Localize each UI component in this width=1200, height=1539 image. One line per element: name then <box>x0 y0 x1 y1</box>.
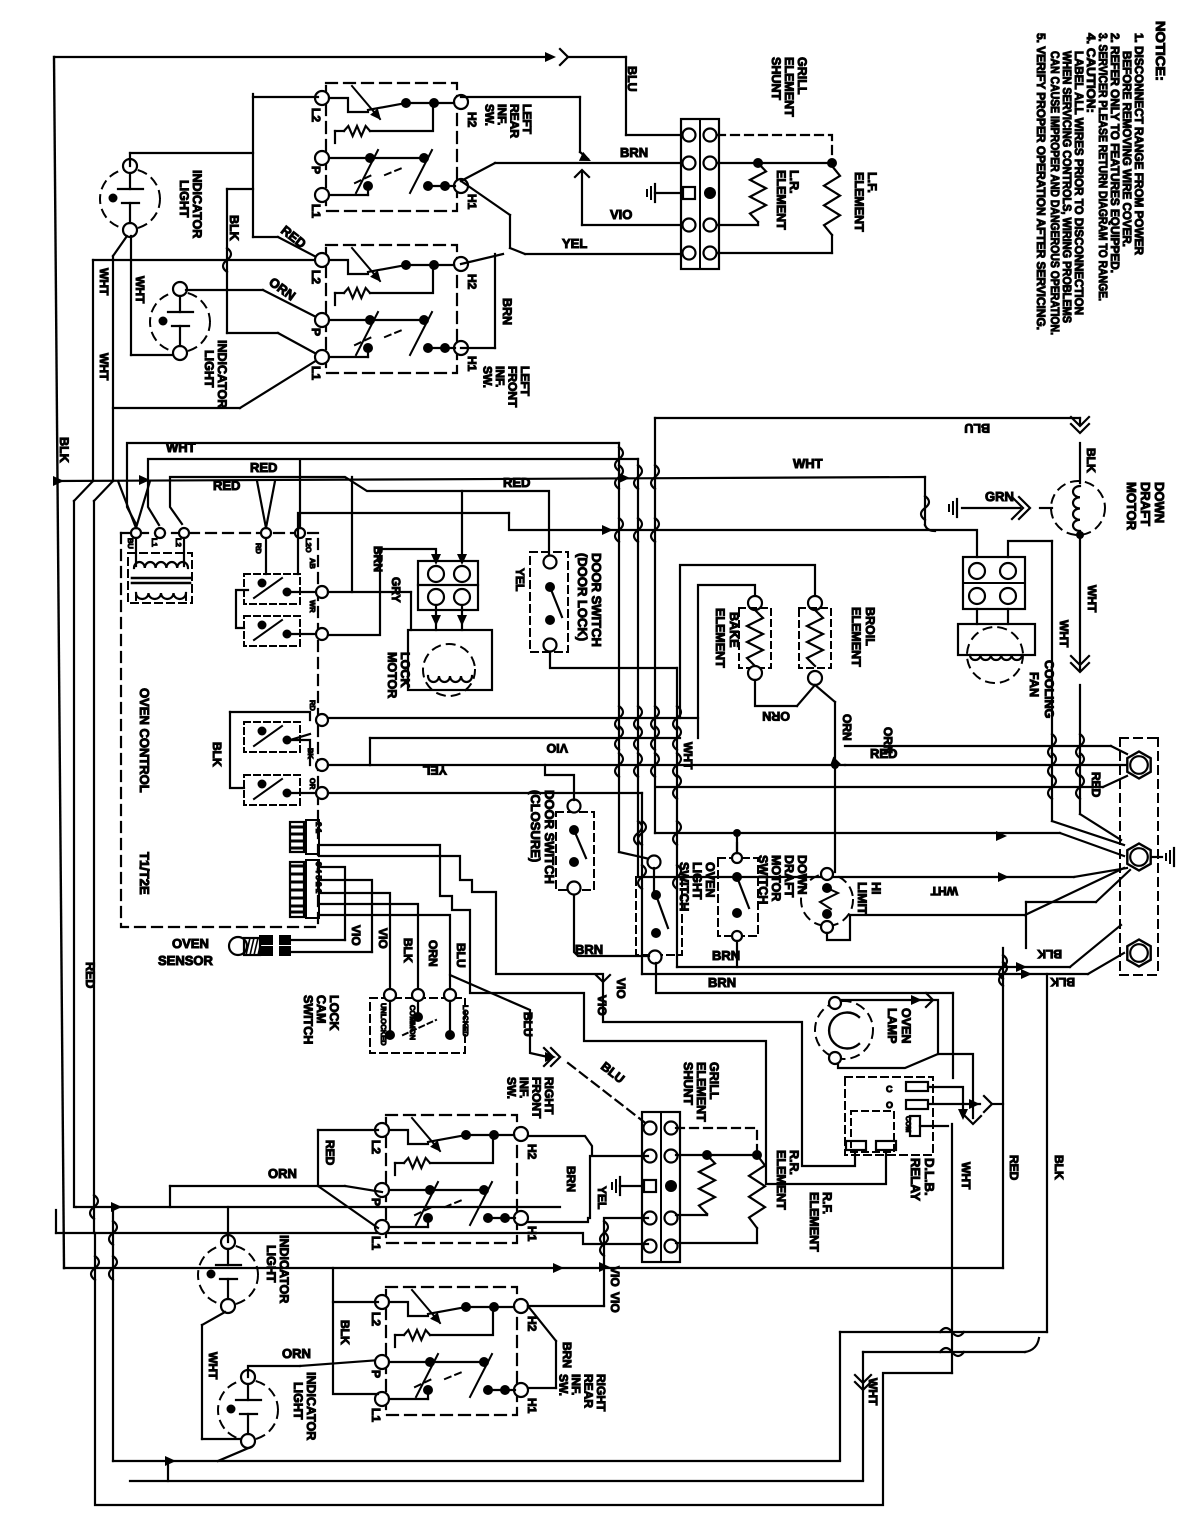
broil element <box>808 596 822 610</box>
svg-text:NOTICE:: NOTICE: <box>1153 21 1168 81</box>
wire ind4 bottom <box>218 1447 251 1461</box>
hex terminal <box>1127 844 1150 871</box>
svg-text:VIO: VIO <box>608 1266 622 1287</box>
svg-text:H1: H1 <box>465 356 479 372</box>
wire y967 to hex3 <box>677 966 1070 968</box>
terminal L1 <box>375 1392 389 1406</box>
transformer box <box>128 553 192 603</box>
wire top supply L1 <box>55 56 549 58</box>
down draft motor <box>1051 481 1105 535</box>
svg-text:RED: RED <box>323 1140 337 1166</box>
wire H2 to YEL junction <box>461 254 503 264</box>
wire ind4 top ORN <box>248 1366 300 1377</box>
svg-text:SWITCH: SWITCH <box>756 855 770 904</box>
svg-text:LOCK: LOCK <box>398 652 412 687</box>
svg-text:LIGHT: LIGHT <box>690 862 704 900</box>
svg-text:C: C <box>886 1084 893 1094</box>
wire RED drop <box>252 94 254 237</box>
terminal block screw right <box>704 129 717 142</box>
infinite switch body RIGHT <box>386 1115 517 1243</box>
svg-text:ORN: ORN <box>282 1346 311 1361</box>
resistor L.F. ELEMENT <box>824 166 840 235</box>
transformer secondary <box>136 593 186 599</box>
svg-text:H2: H2 <box>525 1144 539 1160</box>
svg-text:BRN: BRN <box>560 1342 574 1368</box>
svg-text:OVEN CONTROL: OVEN CONTROL <box>137 688 152 793</box>
terminal H1 <box>514 1383 528 1397</box>
wire ind1-to-ind2 vertical <box>130 236 132 355</box>
wire y530 GRY to fan <box>509 513 977 557</box>
wire bake bottom <box>755 680 797 706</box>
terminal H1 <box>454 179 468 193</box>
wire ORN ind2 <box>186 289 263 291</box>
wire y1268 BLK long <box>64 1267 1003 1269</box>
dlb wire NO <box>928 1103 980 1105</box>
svg-text:L2: L2 <box>174 538 183 547</box>
svg-text:H1: H1 <box>465 194 479 210</box>
svg-text:BRN: BRN <box>708 975 736 990</box>
svg-text:BLU: BLU <box>625 66 639 92</box>
svg-text:GRILL: GRILL <box>795 57 809 95</box>
wire BRN to elements <box>717 162 832 164</box>
wire pin3 YEL <box>328 792 642 794</box>
terminal block screw right <box>704 219 717 232</box>
sensor wires <box>291 939 345 941</box>
terminal H2 <box>454 95 468 109</box>
svg-text:H2: H2 <box>465 274 479 290</box>
svg-text:L2: L2 <box>369 1312 383 1326</box>
wire x677 door lock down <box>676 668 678 967</box>
pilot resistor <box>395 1334 404 1336</box>
terminal block screw right <box>665 1122 678 1135</box>
terminal block screw left <box>683 247 696 260</box>
svg-text:L1: L1 <box>150 538 159 547</box>
wire ind3 bottom <box>202 1312 225 1325</box>
wire y1481 <box>130 1480 863 1482</box>
wire ind3 top <box>227 1207 229 1242</box>
wire x863 down <box>862 1352 864 1480</box>
terminal block ground lug <box>644 1180 656 1192</box>
terminal L2 <box>315 91 329 105</box>
wire RR L2 feed <box>333 1268 378 1302</box>
wire RR H2-H1 bridge <box>528 1306 556 1341</box>
wire YEL long <box>525 253 681 255</box>
svg-text:RED: RED <box>83 962 97 988</box>
L1 contact <box>389 1226 428 1228</box>
contact dots <box>461 1130 471 1140</box>
transformer core <box>132 577 190 580</box>
cooling fan motor <box>958 624 1035 655</box>
terminal block screw left <box>644 1122 657 1135</box>
wire LR bottom <box>757 222 759 225</box>
svg-text:WHT: WHT <box>681 742 695 770</box>
terminal block screw left <box>683 129 696 142</box>
wire WHT drop x619 <box>618 443 620 852</box>
svg-text:SW.: SW. <box>557 1374 571 1396</box>
wire RR bottom <box>706 1214 708 1215</box>
terminal block body <box>681 119 719 269</box>
svg-text:INDICATOR: INDICATOR <box>304 1372 318 1440</box>
terminal P <box>375 1355 389 1369</box>
terminal block screw left <box>644 1150 657 1163</box>
terminal L1 <box>315 188 329 202</box>
L1 contact <box>329 356 368 358</box>
bus jogs <box>74 481 93 501</box>
wire y787 hex1 <box>656 786 1103 788</box>
wire y738 <box>370 737 680 739</box>
svg-text:YEL: YEL <box>513 568 527 591</box>
indicator light symbol <box>150 292 210 352</box>
terminal H2 <box>454 257 468 271</box>
svg-text:COM: COM <box>904 1116 911 1133</box>
terminal L1 <box>375 1220 389 1234</box>
pilot resistor <box>395 1162 404 1164</box>
hi limit <box>801 874 853 926</box>
svg-text:BAKE: BAKE <box>727 612 741 647</box>
svg-text:BRN: BRN <box>620 145 648 160</box>
wire RR L1 feed <box>333 1302 378 1394</box>
wire broil junction to hi limit <box>834 765 836 872</box>
svg-text:ELEMENT: ELEMENT <box>774 1150 788 1210</box>
wire H1 to BRN line <box>461 163 495 181</box>
WHT riser x1052 <box>1051 541 1053 821</box>
switch contact arm L2-H2 <box>389 1130 428 1144</box>
wire RED drop x638 <box>637 459 639 877</box>
wire ols bottom down <box>656 963 953 993</box>
indicator light symbol <box>198 1245 258 1305</box>
svg-text:BLK: BLK <box>210 742 224 767</box>
svg-text:WHT: WHT <box>206 1352 220 1380</box>
dlb contact 1 <box>906 1082 928 1091</box>
svg-text:L1: L1 <box>369 1236 383 1250</box>
terminal L2 <box>375 1123 389 1137</box>
bake element <box>748 596 762 610</box>
svg-text:BK: BK <box>306 748 315 759</box>
svg-text:AB: AB <box>308 558 317 569</box>
lock motor coil circle <box>423 644 475 696</box>
svg-text:RED: RED <box>1089 772 1103 798</box>
svg-text:L1: L1 <box>369 1408 383 1422</box>
svg-text:SENSOR: SENSOR <box>158 953 214 968</box>
downdraft disconnect <box>1071 417 1089 433</box>
WHT bus B lower <box>93 501 95 1233</box>
svg-text:5. VERIFY PROPER OPERATION AFT: 5. VERIFY PROPER OPERATION AFTER SERVICI… <box>1034 33 1048 330</box>
svg-text:WHT: WHT <box>166 440 196 455</box>
svg-text:WHT: WHT <box>97 353 111 381</box>
wire L1 diag second <box>240 357 322 408</box>
indicator light symbol <box>100 169 160 229</box>
L1 contact <box>329 194 368 196</box>
wire RED to lock connector <box>461 491 463 561</box>
terminal block center pin <box>665 1180 677 1192</box>
svg-text:BLK: BLK <box>1050 975 1075 989</box>
svg-text:WHT: WHT <box>930 884 958 898</box>
terminal block screw right <box>665 1240 678 1253</box>
svg-text:SWITCH: SWITCH <box>301 995 315 1044</box>
wire y513 chain <box>298 513 509 574</box>
control relay 1 <box>244 574 300 604</box>
wire BLU drop x655 <box>654 418 656 833</box>
P contact <box>389 1361 430 1363</box>
wire BRN to block <box>495 162 681 164</box>
svg-text:O: O <box>886 1100 893 1110</box>
lock motor assembly <box>408 630 492 690</box>
terminal P <box>315 313 329 327</box>
svg-text:ELEMENT: ELEMENT <box>849 607 863 667</box>
wire broil feed <box>680 565 815 718</box>
svg-text:SWITCH: SWITCH <box>677 862 691 911</box>
svg-text:RD: RD <box>254 543 263 554</box>
svg-text:DRAFT: DRAFT <box>782 855 796 898</box>
svg-text:(DOOR LOCK): (DOOR LOCK) <box>575 553 590 641</box>
dlb contact 2 <box>906 1100 928 1109</box>
infinite switch body RIGHT <box>386 1287 517 1415</box>
wire y1352 <box>863 1351 1025 1353</box>
svg-text:UNLOCKED: UNLOCKED <box>379 1003 388 1046</box>
WHT bus A upper <box>112 256 114 481</box>
wire x113 up <box>112 1207 114 1461</box>
svg-text:YEL: YEL <box>595 1186 609 1209</box>
dlb coil wire <box>920 1125 948 1127</box>
svg-text:VIO: VIO <box>614 978 628 999</box>
hex dashed enclosure <box>1120 737 1158 739</box>
wire y1332 <box>840 1331 1047 1333</box>
wire WHT loop y1233 <box>56 1233 648 1244</box>
wire grill shunt dashed <box>717 135 832 160</box>
terminal block screw left <box>683 219 696 232</box>
ground mid hex <box>1152 856 1162 858</box>
ground lower block <box>619 1177 621 1195</box>
svg-text:VIO: VIO <box>349 925 363 946</box>
svg-text:BLU: BLU <box>598 1059 627 1086</box>
svg-text:BLK: BLK <box>57 437 71 463</box>
wire mid hex bottom <box>1096 870 1130 902</box>
WHT bus B upper <box>92 260 94 481</box>
svg-text:ORN: ORN <box>840 714 854 741</box>
wire row2 to elements <box>676 1154 757 1156</box>
wire VIO to block <box>582 224 681 226</box>
wire BLK bus right <box>1046 974 1048 1332</box>
junction dot LF <box>827 158 837 168</box>
connector B <box>290 862 304 917</box>
terminal block screw right <box>704 247 717 260</box>
svg-text:LOCK: LOCK <box>327 995 341 1030</box>
terminal P <box>375 1183 389 1197</box>
svg-text:RED: RED <box>503 475 530 490</box>
wire H1 to YEL <box>461 181 510 215</box>
linkage dashes <box>355 175 372 183</box>
svg-text:ELEMENT: ELEMENT <box>774 170 788 230</box>
svg-text:ELEMENT: ELEMENT <box>713 608 727 668</box>
svg-text:LIMIT: LIMIT <box>855 882 869 915</box>
svg-text:ELEMENT: ELEMENT <box>782 57 796 117</box>
lock cam switch box <box>370 998 465 1053</box>
wire y974 to hex3 <box>642 973 1088 975</box>
wire VIO step 2 <box>319 845 886 1184</box>
wire row4 left VIO <box>604 1218 648 1306</box>
P contact <box>329 319 370 321</box>
wire RF L2 feed RED <box>318 1129 378 1131</box>
svg-text:D.L.B.: D.L.B. <box>922 1158 937 1196</box>
hex terminal <box>1127 752 1150 779</box>
lock motor connector <box>418 561 478 610</box>
wire y1460 <box>113 1460 840 1462</box>
contact dots <box>401 260 411 270</box>
contact dots <box>401 98 411 108</box>
terminal L2 <box>375 1295 389 1309</box>
svg-text:RED: RED <box>278 223 309 252</box>
linkage dashes <box>415 1379 432 1387</box>
svg-text:BRN: BRN <box>371 546 385 572</box>
resistor L.R. ELEMENT <box>750 163 766 222</box>
terminal block ground lug <box>683 187 695 199</box>
svg-text:ELEMENT: ELEMENT <box>852 172 866 232</box>
wire ddms top <box>736 833 738 853</box>
linkage dashes <box>355 337 372 345</box>
disconnect arrow top <box>545 52 556 62</box>
left border BLK bus <box>54 57 64 1268</box>
terminal L1 <box>315 350 329 364</box>
lock cam terminals <box>384 989 396 1001</box>
svg-text:CAM: CAM <box>314 995 328 1023</box>
wire motor bottom WHT <box>1079 533 1081 670</box>
svg-text:P: P <box>369 1370 383 1378</box>
wire RED lower to door lock <box>170 477 549 556</box>
wire YEL drop <box>641 793 643 974</box>
svg-text:SW.: SW. <box>483 104 497 126</box>
terminal H1 <box>514 1211 528 1225</box>
svg-text:WR: WR <box>308 600 317 613</box>
wire RF bottom <box>756 1228 758 1243</box>
svg-text:R.F.: R.F. <box>820 1192 834 1214</box>
svg-text:P: P <box>309 328 323 336</box>
svg-text:SW.: SW. <box>505 1077 519 1099</box>
wire pin1 line y718 <box>328 717 698 719</box>
svg-text:DOOR SWITCH: DOOR SWITCH <box>589 553 604 647</box>
svg-text:VIO: VIO <box>610 207 632 222</box>
svg-text:WHT: WHT <box>866 1378 880 1406</box>
wire RF L1 diag <box>318 1186 378 1228</box>
svg-text:L.F.: L.F. <box>865 172 879 193</box>
wire ORN rf <box>170 1185 345 1187</box>
svg-text:L2O: L2O <box>304 538 313 553</box>
ddms contacts <box>732 853 742 863</box>
control relay 4 <box>244 775 300 805</box>
svg-text:BLK: BLK <box>227 215 241 241</box>
svg-text:OVEN: OVEN <box>899 1008 913 1043</box>
pin V feeds <box>118 481 136 528</box>
down draft motor switch box <box>718 858 758 936</box>
svg-text:GRY: GRY <box>389 577 403 603</box>
svg-text:BRN: BRN <box>712 948 740 963</box>
wire LF bottom <box>831 235 833 253</box>
wire stub y189 <box>227 188 253 190</box>
svg-text:BU: BU <box>126 538 135 549</box>
terminal H1 <box>454 341 468 355</box>
svg-text:ELEMENT: ELEMENT <box>694 1062 708 1122</box>
wire broil bottom to RED <box>815 685 835 702</box>
svg-text:GRILL: GRILL <box>707 1062 721 1100</box>
svg-text:ORN: ORN <box>268 1166 297 1181</box>
oven sensor bulb <box>229 937 247 955</box>
indicator light symbol <box>218 1380 278 1440</box>
svg-text:LIGHT: LIGHT <box>177 180 191 218</box>
svg-text:H1: H1 <box>525 1226 539 1242</box>
door lock switch box <box>530 552 568 652</box>
svg-text:L1: L1 <box>309 366 323 380</box>
svg-text:VIO: VIO <box>608 1292 622 1313</box>
svg-text:BROIL: BROIL <box>863 607 877 646</box>
svg-text:L1: L1 <box>309 204 323 218</box>
dlb contact wires <box>928 1087 963 1114</box>
resistor R.R. ELEMENT <box>699 1155 715 1214</box>
svg-text:VIO: VIO <box>595 995 609 1016</box>
wire RF H2 out <box>528 1136 648 1156</box>
wire RR H2 VIO <box>528 1305 604 1307</box>
wire lamp bottom <box>838 1054 973 1118</box>
svg-text:CAN CAUSE IMPROPER AND DANGERO: CAN CAUSE IMPROPER AND DANGEROUS OPERATI… <box>1048 51 1062 335</box>
terminal H2 <box>514 1299 528 1313</box>
svg-text:ORN: ORN <box>762 709 790 723</box>
door lock switch <box>544 556 557 569</box>
infinite switch body LEFT <box>326 83 457 211</box>
svg-text:BLU: BLU <box>964 421 990 435</box>
wire L2 left-rear feed <box>253 96 318 98</box>
svg-text:BRN: BRN <box>500 298 514 325</box>
terminal block screw left <box>644 1240 657 1253</box>
svg-text:COOLING: COOLING <box>1042 660 1056 718</box>
wire VIO riser <box>581 172 583 225</box>
svg-text:BLK: BLK <box>338 1320 352 1345</box>
wire bake feed <box>698 585 755 738</box>
svg-text:OVEN: OVEN <box>172 936 209 951</box>
svg-text:INDICATOR: INDICATOR <box>215 340 229 408</box>
svg-text:GRN: GRN <box>985 489 1014 504</box>
svg-text:(CLOSURE): (CLOSURE) <box>528 790 543 862</box>
wire BLU drop to terminal block <box>625 57 627 135</box>
svg-text:COMMON: COMMON <box>408 1005 417 1040</box>
wire VIO long y765 <box>370 764 845 766</box>
wire locked terminal riser <box>449 975 451 989</box>
svg-text:DOOR SWITCH: DOOR SWITCH <box>542 790 557 884</box>
svg-text:BRN: BRN <box>564 1166 578 1192</box>
terminal block screw right <box>665 1212 678 1225</box>
wire RED middle <box>148 459 638 525</box>
svg-text:YEL: YEL <box>562 236 587 251</box>
wire ind1 top to switch <box>129 153 131 166</box>
wire VIO step 1 <box>319 856 855 1166</box>
dlb relay box <box>845 1077 933 1155</box>
svg-text:H1: H1 <box>525 1398 539 1414</box>
svg-text:DOWN: DOWN <box>1152 482 1167 523</box>
infinite switch body LEFT <box>326 245 457 373</box>
wire y746 hex1 <box>845 745 1111 747</box>
relay1 pin <box>316 586 328 598</box>
wire motor diag <box>1080 814 1121 840</box>
terminal P <box>315 151 329 165</box>
svg-text:MOTOR: MOTOR <box>385 652 399 698</box>
wire ddms bottom to y967 <box>736 941 738 967</box>
door switch closure box <box>556 812 594 890</box>
terminal H2 <box>514 1127 528 1141</box>
svg-text:L2: L2 <box>369 1140 383 1154</box>
dlb bottom pills <box>846 1141 866 1150</box>
svg-text:SHUNT: SHUNT <box>769 57 783 100</box>
terminal block screw left <box>644 1212 657 1225</box>
pilot resistor <box>335 130 344 132</box>
terminal L2 <box>315 253 329 267</box>
svg-text:INDICATOR: INDICATOR <box>277 1235 291 1303</box>
